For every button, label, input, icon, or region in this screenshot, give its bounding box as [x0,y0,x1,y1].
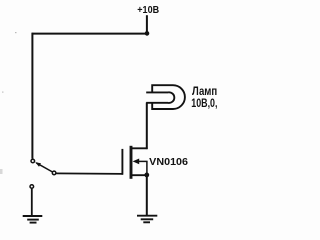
switch S1 pole contact circle [52,171,56,175]
svg-text:10В,0,1А: 10В,0,1А [191,96,217,110]
svg-text:+10В: +10В [137,4,159,16]
wire lower contact to ground [31,189,33,215]
wire supply stub [146,15,148,33]
lamp envelope [152,85,185,109]
ground symbol right [137,216,157,223]
mosfet Q1 body lead with arrow [133,159,148,175]
switch S1 lower throw contact circle [30,185,34,189]
switch S1 lever with arrow [35,162,52,172]
lamp bottom lead [146,102,168,104]
mosfet Q1 drain lead [131,147,148,149]
mosfet Q1 gate plate [121,149,123,175]
wire lamp to drain [146,103,148,150]
switch S1 upper contact circle [31,159,35,163]
ground symbol left [23,216,43,223]
mosfet Q1 channel bar [130,146,133,179]
wire switch pole to gate [56,172,123,175]
junction dot source-body node [144,173,149,178]
wire source to ground [146,175,148,215]
svg-text:VN0106: VN0106 [149,157,188,168]
lamp filament loop [168,92,174,103]
wire top rail [32,33,148,35]
scan speckles [15,32,17,33]
lamp top lead [146,91,168,93]
mosfet Q1 source lead [131,174,148,176]
junction dot at +10V node [145,31,150,36]
wire left rail [31,33,33,159]
